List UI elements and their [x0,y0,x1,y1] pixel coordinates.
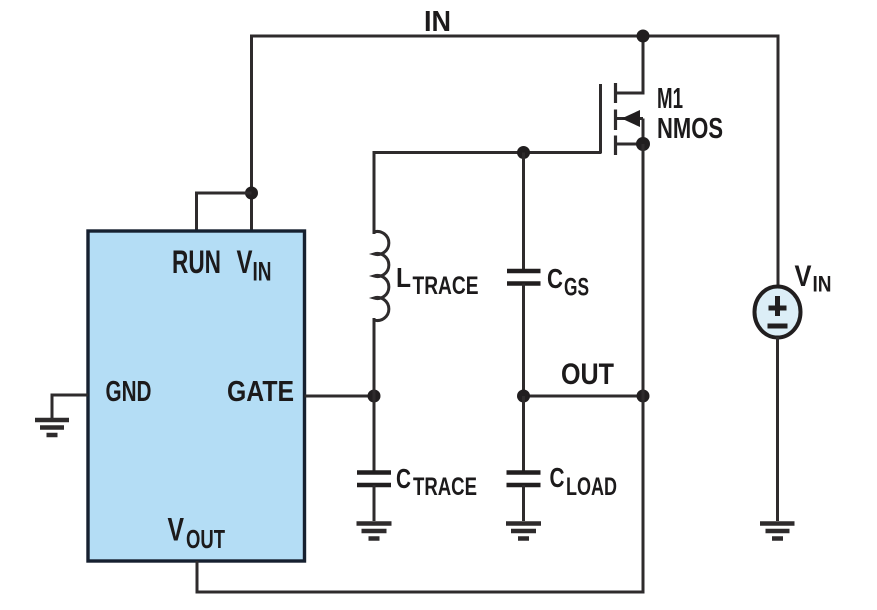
svg-text:IN: IN [424,6,451,38]
svg-text:GND: GND [106,376,152,408]
svg-text:TRACE: TRACE [413,272,479,300]
svg-text:M1: M1 [657,83,683,115]
wire IN top rail [250,35,780,38]
svg-text:IN: IN [813,272,832,297]
svg-text:GATE: GATE [227,376,294,408]
svg-text:RUN: RUN [172,244,221,280]
svg-text:C: C [547,263,563,294]
svg-text:OUT: OUT [561,358,614,391]
transistor M1 drain [616,36,644,93]
svg-text:C: C [550,462,565,493]
IC U1 block [88,231,305,561]
wire OUT node [524,395,644,398]
transistor M1 body arrow [616,117,644,120]
node junction CGS top [517,146,530,159]
wire bottom rail [197,561,645,592]
node junction GATE/LTRACE/CTRACE [368,390,381,403]
wire mid rail (gate net top) [374,153,602,235]
ground (GND pin) [35,420,69,435]
wire VIN pin riser [250,35,253,232]
transistor M1 channel bars [614,83,617,155]
wire LTRACE bottom [373,318,376,473]
svg-text:IN: IN [253,257,272,287]
source VIN [755,287,801,338]
capacitor CTRACE [373,396,376,473]
wire VIN source bottom [776,337,779,521]
ground (VIN source) [760,524,795,539]
wire RUN stub [197,193,252,231]
svg-text:L: L [396,262,411,293]
capacitor CLOAD [522,396,525,473]
node junction OUT left [517,390,530,403]
node junction at VIN/RUN [245,187,258,200]
ground (CTRACE) [357,524,392,539]
node junction source/body [636,137,650,151]
wire GND pin [52,395,88,420]
svg-text:OUT: OUT [186,524,225,554]
transistor M1 gate bar [599,84,602,153]
svg-text:TRACE: TRACE [413,473,477,501]
svg-text:LOAD: LOAD [566,473,617,501]
capacitor CGS [522,153,525,272]
svg-text:NMOS: NMOS [657,113,723,145]
svg-text:C: C [396,463,411,494]
transistor M1 source [616,143,644,146]
node junction OUT right [637,390,650,403]
node junction drain/IN [637,30,650,43]
wire GATE pin [305,395,375,398]
svg-text:V: V [168,512,185,548]
svg-text:V: V [237,244,253,280]
wire VIN source riser [777,35,780,289]
svg-text:V: V [795,260,812,293]
ground (CLOAD) [506,524,541,539]
inductor LTRACE [374,231,389,320]
wire source down [642,144,645,594]
svg-text:GS: GS [564,274,589,302]
